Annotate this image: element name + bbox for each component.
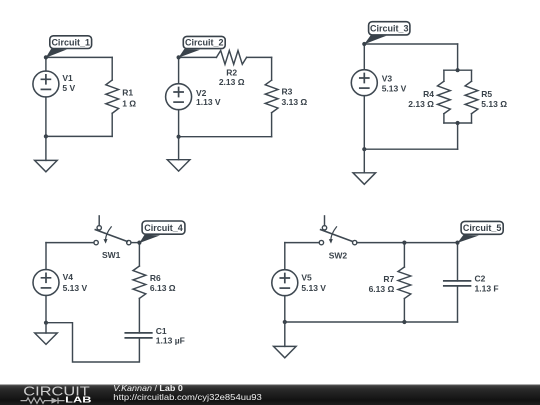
footer bar — [0, 385, 540, 405]
ground G3 — [353, 149, 376, 184]
junction node C5 — [455, 241, 459, 245]
svg-text:5.13 Ω: 5.13 Ω — [481, 99, 507, 109]
switch SW2 — [319, 216, 357, 245]
resistor R6 — [133, 266, 146, 298]
svg-text:Circuit_1: Circuit_1 — [51, 37, 90, 47]
svg-text:6.13 Ω: 6.13 Ω — [369, 284, 395, 294]
svg-text:V1: V1 — [62, 73, 73, 83]
wire C1cap to ground loop — [46, 323, 139, 362]
ground G5 — [274, 322, 297, 358]
wire bracket bottom C3 — [444, 122, 472, 124]
wire bottom C3 — [364, 148, 457, 150]
capacitor C1 — [125, 333, 152, 338]
junction bottom-left C5 — [283, 320, 287, 324]
capacitor C2 — [444, 281, 471, 286]
wire top-right C2 — [247, 56, 272, 58]
wire right lower C2 — [271, 113, 273, 137]
svg-text:V4: V4 — [63, 272, 74, 282]
wire R5 lead down — [471, 114, 473, 123]
svg-text:R2: R2 — [226, 67, 237, 77]
wire bottom C2 — [179, 136, 272, 138]
ground G1 — [35, 136, 58, 171]
resistor R5 — [465, 81, 478, 113]
junction bottom C2 — [177, 135, 181, 139]
junction node C4 — [137, 241, 141, 245]
svg-text:SW2: SW2 — [329, 250, 348, 260]
svg-text:R6: R6 — [150, 273, 161, 283]
voltage source V4 — [33, 270, 59, 296]
junction node top-left C1 — [44, 55, 48, 59]
logo schematic squiggle wire — [21, 398, 52, 404]
wire left upper C5 — [284, 243, 286, 270]
wire top-left C5 — [285, 242, 319, 244]
svg-text:Circuit_2: Circuit_2 — [185, 38, 224, 48]
junction R7 top C5 — [402, 241, 406, 245]
wire right upper C2 — [271, 57, 273, 80]
wire top C1 — [46, 56, 112, 58]
junction bottom C1 — [44, 134, 48, 138]
wire R5 lead up — [471, 70, 473, 81]
wire left lower C3 — [363, 96, 365, 150]
wire left upper C4 — [45, 243, 47, 270]
wire left lower C5 — [284, 296, 286, 322]
svg-text:5.13 V: 5.13 V — [63, 283, 88, 293]
svg-text:Circuit_4: Circuit_4 — [144, 223, 183, 233]
wire C2cap lead up — [457, 243, 459, 281]
resistor R1 — [106, 80, 119, 113]
svg-text:R7: R7 — [383, 274, 394, 284]
wire right lower C1 — [111, 113, 113, 136]
resistor R4 — [438, 81, 451, 113]
svg-text:http://circuitlab.com/cyj32e85: http://circuitlab.com/cyj32e854uu93 — [113, 392, 262, 402]
svg-text:R3: R3 — [282, 86, 293, 96]
wire switch to node C4 — [131, 242, 139, 244]
svg-text:LAB: LAB — [65, 395, 91, 405]
svg-text:C1: C1 — [156, 326, 167, 336]
wire right upper C3 — [457, 44, 459, 70]
wire right upper C1 — [111, 57, 113, 80]
junction node top-left C3 — [362, 42, 366, 46]
svg-text:2.13 Ω: 2.13 Ω — [408, 99, 434, 109]
ground G4 — [35, 323, 58, 345]
junction parallel top C3 — [456, 68, 460, 72]
wire left upper C3 — [363, 44, 365, 70]
wire R4 lead down — [443, 114, 445, 123]
svg-text:5.13 V: 5.13 V — [382, 83, 407, 93]
node flag Circuit_5 — [457, 221, 503, 243]
voltage source V3 — [351, 70, 377, 96]
svg-text:5.13 V: 5.13 V — [301, 283, 326, 293]
resistor R7 — [398, 267, 411, 299]
wire left lower C2 — [178, 110, 180, 137]
voltage source V5 — [272, 270, 298, 296]
wire node down C4 — [138, 243, 140, 266]
svg-text:V5: V5 — [301, 272, 312, 282]
wire switch to node C5 — [357, 242, 458, 244]
wire top-left C2 — [179, 56, 217, 58]
wire left upper C1 — [45, 57, 47, 71]
wire R7 lead up — [403, 243, 405, 267]
wire left upper C2 — [178, 57, 180, 83]
junction parallel bottom C3 — [456, 121, 460, 125]
wire R4 lead up — [443, 70, 445, 81]
resistor R3 — [265, 80, 278, 113]
wire top C3 — [364, 43, 457, 45]
voltage source V1 — [33, 71, 59, 97]
svg-text:SW1: SW1 — [102, 250, 121, 260]
wire left lower C4 — [45, 296, 47, 323]
wire bracket top C3 — [444, 69, 472, 71]
wire bottom C5 — [285, 321, 458, 323]
svg-text:Circuit_3: Circuit_3 — [370, 24, 409, 34]
svg-text:3.13 Ω: 3.13 Ω — [282, 97, 308, 107]
wire top-left C4 — [46, 242, 94, 244]
node flag Circuit_4 — [139, 221, 185, 243]
junction node top-left C2 — [177, 55, 181, 59]
svg-text:Circuit_5: Circuit_5 — [463, 223, 502, 233]
node flag Circuit_3 — [364, 22, 410, 45]
logo diode — [52, 398, 59, 404]
node flag Circuit_2 — [179, 36, 226, 57]
svg-text:R1: R1 — [122, 88, 133, 98]
svg-text:R4: R4 — [423, 89, 434, 99]
voltage source V2 — [166, 84, 192, 110]
svg-text:C2: C2 — [475, 274, 486, 284]
junction bottom C4 — [44, 321, 48, 325]
junction bottom C3 — [362, 147, 366, 151]
wire left lower C1 — [45, 97, 47, 136]
wire C2cap lead down — [457, 286, 459, 322]
svg-text:R5: R5 — [481, 89, 492, 99]
junction R7 bottom C5 — [402, 320, 406, 324]
svg-text:1 Ω: 1 Ω — [122, 98, 136, 108]
svg-text:1.13 F: 1.13 F — [475, 283, 499, 293]
ground G2 — [167, 137, 190, 171]
svg-text:5 V: 5 V — [62, 83, 75, 93]
svg-text:1.13 µF: 1.13 µF — [156, 336, 185, 346]
switch SW1 — [94, 216, 131, 245]
resistor R2 — [216, 51, 246, 65]
wire right lower C3 — [457, 123, 459, 149]
wire bottom C1 — [46, 135, 112, 137]
node flag Circuit_1 — [46, 36, 92, 58]
wire R6 to C1cap — [138, 298, 140, 333]
wire R7 lead down — [403, 299, 405, 323]
svg-text:1.13 V: 1.13 V — [196, 97, 221, 107]
svg-text:2.13 Ω: 2.13 Ω — [219, 77, 245, 87]
svg-text:V3: V3 — [382, 74, 393, 84]
svg-text:6.13 Ω: 6.13 Ω — [150, 283, 176, 293]
